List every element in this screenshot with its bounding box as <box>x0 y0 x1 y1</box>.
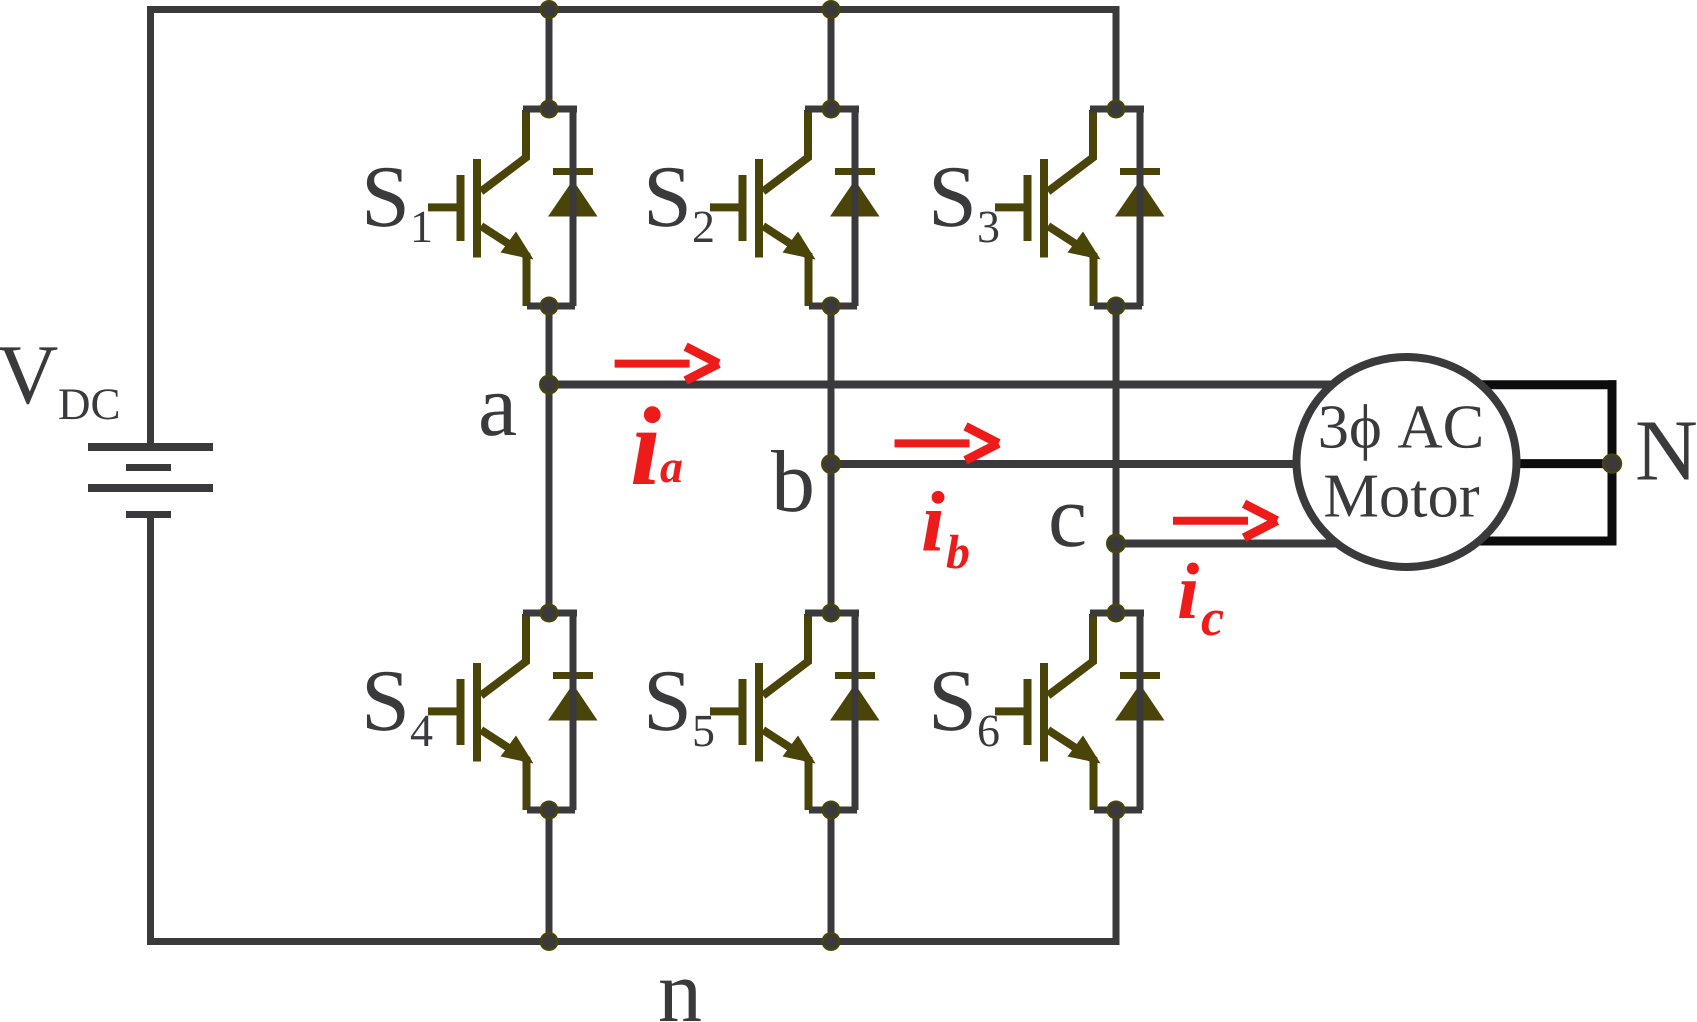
IGBT S4: gray frame bottom edge <box>527 807 575 814</box>
IGBT S1 gate bar <box>457 175 465 241</box>
node: S2 collector terminal <box>822 100 841 119</box>
IGBT S3: gray frame top edge <box>1090 106 1144 113</box>
diode of S5: anode triangle <box>830 684 880 721</box>
wire: DC source left leg lower <box>147 514 154 942</box>
IGBT S5: gray frame top edge <box>805 610 859 617</box>
label VDC <box>0 347 57 404</box>
IGBT S1 gate lead <box>428 203 464 211</box>
wire: DC source left leg upper <box>147 10 154 448</box>
node: S6 emitter terminal <box>1107 801 1126 820</box>
label node a <box>481 394 516 436</box>
freewheeling diode rail of S3 <box>1137 109 1144 306</box>
label S2 <box>649 168 713 242</box>
freewheeling diode rail of S5 <box>852 613 859 810</box>
wire: leg b from S bottom to bottom bus <box>828 811 835 942</box>
IGBT S1 channel bar <box>473 159 481 258</box>
diode of S5: cathode bar <box>835 672 875 679</box>
label S3 <box>934 168 998 243</box>
wire: leg a mid section through node a <box>546 306 553 613</box>
label N <box>1638 423 1696 480</box>
IGBT S1 emitter lead <box>481 226 527 306</box>
IGBT S3 channel bar <box>1040 159 1048 258</box>
label i_c <box>1179 562 1223 635</box>
battery VDC plate 1 (long, +) <box>88 443 213 451</box>
transistor S1 (IGBT with antiparallel diode) <box>428 100 598 316</box>
transistor S3 (IGBT with antiparallel diode) <box>995 100 1165 316</box>
battery VDC plate 3 (long, +) <box>88 484 213 492</box>
label node c <box>1051 505 1084 547</box>
diode of S4: cathode bar <box>553 672 593 679</box>
diode of S3: cathode bar <box>1120 168 1160 175</box>
node: S2 emitter terminal <box>822 297 841 316</box>
IGBT S4 emitter lead <box>481 730 527 810</box>
node: S1 collector terminal <box>540 100 559 119</box>
IGBT S6 channel bar <box>1040 663 1048 762</box>
IGBT S4 collector lead <box>481 614 526 696</box>
wire: phase c output to motor <box>1116 540 1370 548</box>
motor M1: 3-phase AC motor circle <box>1297 357 1517 567</box>
transistor S6 (IGBT with antiparallel diode) <box>995 604 1165 820</box>
label 3phi AC Motor <box>1321 404 1481 517</box>
wire: phase b output to motor <box>831 460 1370 468</box>
label node b <box>771 450 812 512</box>
wire: leg c from S bottom to bottom bus <box>1113 811 1120 942</box>
junction: top bus / leg a <box>540 0 559 19</box>
IGBT S2 emitter arrowhead <box>783 232 816 260</box>
wire: negative DC bus (bottom rail) <box>147 938 1120 945</box>
label i_b <box>923 491 968 569</box>
IGBT S3 gate lead <box>995 203 1031 211</box>
IGBT S5 emitter arrowhead <box>783 736 816 764</box>
IGBT S3 gate bar <box>1024 175 1032 241</box>
IGBT S5 emitter lead <box>763 730 809 810</box>
IGBT S1: gray frame top edge <box>523 106 577 113</box>
wire: leg a from S bottom to bottom bus <box>546 811 553 942</box>
node a (phase a output) <box>539 375 559 395</box>
IGBT S4: gray frame top edge <box>523 610 577 617</box>
battery VDC plate 2 (short, -) <box>126 464 171 471</box>
transistor S5 (IGBT with antiparallel diode) <box>710 604 880 820</box>
IGBT S3: gray frame bottom edge <box>1094 303 1142 310</box>
wire: motor phase-c return (black, bottom right) <box>1450 537 1617 546</box>
node: S4 emitter terminal <box>540 801 559 820</box>
wire: leg c mid section through node c <box>1113 306 1120 613</box>
IGBT S1 collector lead <box>481 110 526 192</box>
diode of S2: cathode bar <box>835 168 875 175</box>
node: S1 emitter terminal <box>540 297 559 316</box>
node: S4 collector terminal <box>540 604 559 623</box>
IGBT S1 emitter arrowhead <box>501 232 534 260</box>
wire: motor phase-b return to node N <box>1450 459 1612 468</box>
wire: phase a output to motor <box>549 381 1370 389</box>
IGBT S6 collector lead <box>1048 614 1093 696</box>
IGBT S5: gray frame bottom edge <box>809 807 857 814</box>
wire: positive DC bus (top rail) <box>147 6 1120 13</box>
diode of S2: anode triangle <box>830 180 880 217</box>
current arrow i_a <box>615 347 719 381</box>
junction: bottom bus / leg a <box>540 932 559 951</box>
diode of S1: anode triangle <box>548 180 598 217</box>
current arrow i_c <box>1173 504 1277 538</box>
IGBT S6: gray frame top edge <box>1090 610 1144 617</box>
node: S3 emitter terminal <box>1107 297 1126 316</box>
label i_a <box>633 406 682 484</box>
junction: bottom bus / leg b <box>822 932 841 951</box>
IGBT S2 collector lead <box>763 110 808 192</box>
label S1 <box>367 168 430 242</box>
transistor S4 (IGBT with antiparallel diode) <box>428 604 598 820</box>
diode of S3: anode triangle <box>1115 180 1165 217</box>
IGBT S1: gray frame bottom edge <box>527 303 575 310</box>
node: S3 collector terminal <box>1107 100 1126 119</box>
label S5 <box>649 672 713 747</box>
IGBT S6: gray frame bottom edge <box>1094 807 1142 814</box>
IGBT S4 gate lead <box>428 707 464 715</box>
IGBT S2: gray frame top edge <box>805 106 859 113</box>
wire: neutral bracket vertical <box>1608 380 1617 545</box>
node N (motor neutral) <box>1602 453 1622 473</box>
IGBT S4 gate bar <box>457 679 465 745</box>
wire: motor phase-a return (black, top right) <box>1450 380 1617 389</box>
diode of S1: cathode bar <box>553 168 593 175</box>
junction: top bus / leg b <box>822 0 841 19</box>
IGBT S5 gate bar <box>739 679 747 745</box>
freewheeling diode rail of S4 <box>570 613 577 810</box>
IGBT S3 collector lead <box>1048 110 1093 192</box>
diode of S6: cathode bar <box>1120 672 1160 679</box>
IGBT S6 emitter lead <box>1048 730 1094 810</box>
node: S5 collector terminal <box>822 604 841 623</box>
IGBT S6 gate lead <box>995 707 1031 715</box>
transistor S2 (IGBT with antiparallel diode) <box>710 100 880 316</box>
freewheeling diode rail of S1 <box>570 109 577 306</box>
label node n (negative rail) <box>660 980 701 1021</box>
label S4 <box>367 672 432 746</box>
IGBT S2 emitter lead <box>763 226 809 306</box>
freewheeling diode rail of S2 <box>852 109 859 306</box>
node b (phase b output) <box>821 454 841 474</box>
node: S5 emitter terminal <box>822 801 841 820</box>
IGBT S5 channel bar <box>755 663 763 762</box>
IGBT S4 emitter arrowhead <box>501 736 534 764</box>
label S6 <box>934 672 999 747</box>
IGBT S6 emitter arrowhead <box>1068 736 1101 764</box>
IGBT S3 emitter lead <box>1048 226 1094 306</box>
IGBT S4 channel bar <box>473 663 481 762</box>
IGBT S6 gate bar <box>1024 679 1032 745</box>
IGBT S2 gate bar <box>739 175 747 241</box>
wire: leg b from top bus to S top <box>828 10 835 110</box>
IGBT S2 channel bar <box>755 159 763 258</box>
node c (phase c output) <box>1106 534 1126 554</box>
IGBT S5 collector lead <box>763 614 808 696</box>
wire: leg b mid section through node b <box>828 306 835 613</box>
wire: leg c from top bus to S top <box>1113 10 1120 110</box>
diode of S4: anode triangle <box>548 684 598 721</box>
battery VDC plate 4 (short, -) <box>126 511 171 518</box>
node: S6 collector terminal <box>1107 604 1126 623</box>
current arrow i_b <box>895 426 999 460</box>
IGBT S5 gate lead <box>710 707 746 715</box>
wire: leg a from top bus to S top <box>546 10 553 110</box>
IGBT S3 emitter arrowhead <box>1068 232 1101 260</box>
IGBT S2: gray frame bottom edge <box>809 303 857 310</box>
IGBT S2 gate lead <box>710 203 746 211</box>
diode of S6: anode triangle <box>1115 684 1165 721</box>
freewheeling diode rail of S6 <box>1137 613 1144 810</box>
